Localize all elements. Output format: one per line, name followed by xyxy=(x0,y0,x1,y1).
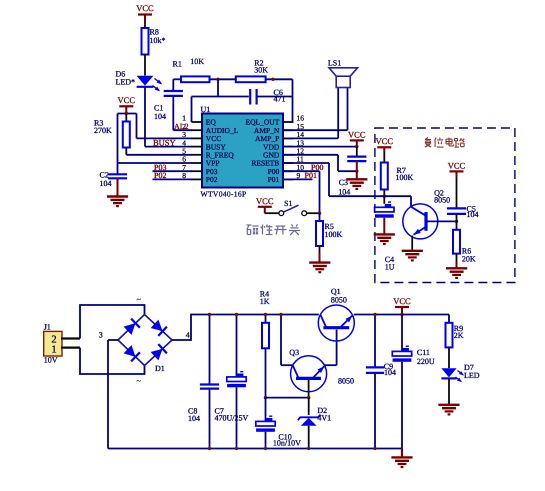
svg-text:WTV040-16P: WTV040-16P xyxy=(201,190,247,199)
svg-text:R1: R1 xyxy=(173,60,182,69)
svg-text:4V1: 4V1 xyxy=(317,413,331,422)
svg-text:LS1: LS1 xyxy=(328,58,341,67)
svg-text:VCC: VCC xyxy=(376,136,394,146)
svg-text:P01: P01 xyxy=(268,175,280,184)
svg-text:P02: P02 xyxy=(206,175,218,184)
svg-text:LED*: LED* xyxy=(116,78,136,87)
svg-text:VCC: VCC xyxy=(348,130,366,140)
svg-text:1: 1 xyxy=(51,344,56,355)
svg-text:104: 104 xyxy=(100,179,112,188)
svg-text:AL2: AL2 xyxy=(174,122,189,131)
svg-text:10V: 10V xyxy=(44,355,58,364)
svg-text:VCC: VCC xyxy=(448,161,466,171)
svg-text:100K: 100K xyxy=(396,173,414,182)
svg-text:VCC: VCC xyxy=(256,196,274,206)
svg-text:2K: 2K xyxy=(454,331,464,340)
svg-text:104: 104 xyxy=(467,210,479,219)
svg-text:VCC: VCC xyxy=(136,3,154,13)
svg-text:VCC: VCC xyxy=(393,296,411,306)
svg-text:470U/25V: 470U/25V xyxy=(215,414,249,423)
svg-text:~: ~ xyxy=(137,377,142,386)
svg-text:S1: S1 xyxy=(284,199,292,208)
svg-text:4: 4 xyxy=(186,331,190,340)
svg-text:220U: 220U xyxy=(417,357,435,366)
svg-text:LED: LED xyxy=(464,371,480,380)
svg-text:20K: 20K xyxy=(462,254,476,263)
svg-text:U1: U1 xyxy=(201,105,211,114)
svg-text:VCC: VCC xyxy=(118,95,136,105)
svg-text:1K: 1K xyxy=(260,297,270,306)
svg-text:270K: 270K xyxy=(94,126,112,135)
svg-text:~: ~ xyxy=(137,295,142,304)
svg-text:100K: 100K xyxy=(325,230,343,239)
svg-text:D1: D1 xyxy=(155,364,165,373)
svg-text:C11: C11 xyxy=(417,348,430,357)
svg-text:104: 104 xyxy=(154,112,166,121)
svg-text:104: 104 xyxy=(384,368,396,377)
svg-text:8050: 8050 xyxy=(434,195,450,204)
svg-text:8050: 8050 xyxy=(331,295,347,304)
svg-text:471: 471 xyxy=(274,94,286,103)
svg-text:P02: P02 xyxy=(154,171,166,180)
svg-text:C3: C3 xyxy=(339,178,348,187)
svg-text:10k*: 10k* xyxy=(150,36,166,45)
svg-text:104: 104 xyxy=(188,414,200,423)
svg-text:J1: J1 xyxy=(44,322,51,331)
svg-text:10K: 10K xyxy=(190,57,204,66)
svg-text:Q3: Q3 xyxy=(289,348,299,357)
svg-text:30K: 30K xyxy=(254,65,268,74)
svg-text:8050: 8050 xyxy=(338,377,354,386)
svg-text:10n/10V: 10n/10V xyxy=(273,439,301,448)
svg-text:3: 3 xyxy=(99,330,103,339)
svg-text:1U: 1U xyxy=(385,263,395,272)
